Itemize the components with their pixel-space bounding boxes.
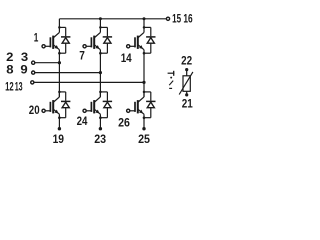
svg-text:9: 9 xyxy=(20,63,28,77)
transistor Q3 gate lead and terminal xyxy=(127,45,130,48)
terminal pins 15 16 xyxy=(166,17,169,20)
node phase V junction xyxy=(99,71,102,74)
wire leg vertical xyxy=(143,50,145,97)
thermistor temperature label -t deg (rotated glyph strokes) xyxy=(168,71,175,76)
transistor Q6 gate lead and terminal xyxy=(127,109,130,112)
wire leg vertical xyxy=(99,50,101,97)
wire thermistor bottom lead xyxy=(186,91,188,95)
transistor Q6 gate bar xyxy=(134,102,136,112)
transistor Q4 body bar xyxy=(52,100,54,113)
node bus junction leg2 xyxy=(99,17,102,20)
svg-text:20: 20 xyxy=(29,103,40,117)
junction dot diode-D1 anode to emitter xyxy=(58,52,61,55)
transistor Q3 gate bar xyxy=(134,37,136,47)
svg-text:26: 26 xyxy=(118,115,130,129)
node bus junction leg3 xyxy=(143,17,146,20)
junction dot diode branch xyxy=(143,91,146,94)
junction dot diode branch xyxy=(143,26,146,29)
svg-text:14: 14 xyxy=(121,51,132,65)
transistor Q1 body bar xyxy=(52,36,54,49)
transistor Q5 gate bar xyxy=(90,102,92,112)
svg-text:1: 1 xyxy=(34,30,39,44)
transistor Q4 gate lead and terminal xyxy=(42,109,45,112)
svg-text:25: 25 xyxy=(138,132,150,146)
transistor Q6 collector wire xyxy=(143,92,145,97)
junction dot diode-D2 anode to emitter xyxy=(99,52,102,55)
transistor Q3 emitter angle with arrow xyxy=(138,45,144,50)
transistor Q2 gate lead and terminal xyxy=(83,45,86,48)
terminal dot xyxy=(58,127,61,130)
terminal pin circle phase U xyxy=(32,61,35,64)
thermistor RT diagonal stroke xyxy=(179,72,193,95)
transistor Q5 body bar xyxy=(93,100,95,113)
wire diode branch of Q2 xyxy=(100,26,107,28)
transistor Q6 emitter angle with arrow xyxy=(138,109,144,114)
wire DC+ bus xyxy=(59,18,166,20)
transistor Q1 gate bar xyxy=(49,37,51,47)
transistor Q3 body bar xyxy=(137,36,139,49)
junction dot diode branch xyxy=(99,26,102,29)
transistor Q5 emitter wire to terminal xyxy=(99,114,101,129)
wire phase V xyxy=(35,72,101,74)
transistor Q4 emitter angle with arrow xyxy=(54,109,60,114)
diode D4 xyxy=(61,100,70,102)
terminal dot xyxy=(99,127,102,130)
transistor Q2 body bar xyxy=(93,36,95,49)
junction dot diode branch xyxy=(99,91,102,94)
transistor Q1 collector riser wire xyxy=(58,19,60,33)
transistor Q4 collector wire xyxy=(58,92,60,97)
wire diode branch of Q1 xyxy=(59,26,65,28)
transistor Q4 gate bar xyxy=(49,102,51,112)
transistor Q5 collector angle xyxy=(95,97,101,102)
thermistor RT pin 22 terminal dot xyxy=(185,68,188,71)
transistor Q2 gate bar xyxy=(90,37,92,47)
transistor Q4 emitter wire to terminal xyxy=(58,114,60,129)
thermistor RT pin 21 terminal dot xyxy=(185,93,188,96)
transistor Q6 collector angle xyxy=(138,97,144,102)
diode D2 xyxy=(103,36,112,38)
node phase W junction xyxy=(142,81,145,84)
wire phase U xyxy=(35,62,60,64)
transistor Q2 emitter angle with arrow xyxy=(95,45,101,50)
svg-text:23: 23 xyxy=(94,132,106,146)
transistor Q5 collector wire xyxy=(99,92,101,97)
svg-text:22: 22 xyxy=(181,53,192,67)
svg-text:19: 19 xyxy=(53,132,65,146)
svg-text:16: 16 xyxy=(183,12,193,26)
svg-text:24: 24 xyxy=(77,114,88,128)
junction dot diode-D4 anode to emitter xyxy=(58,116,61,119)
transistor Q5 gate lead and terminal xyxy=(83,109,86,112)
transistor Q1 collector angle xyxy=(54,32,60,37)
transistor Q2 collector angle xyxy=(95,32,101,37)
wire diode branch of Q5 xyxy=(100,91,107,93)
transistor Q1 emitter angle with arrow xyxy=(54,45,60,50)
thermistor RT body xyxy=(183,76,190,92)
wire diode branch of Q4 xyxy=(59,91,65,93)
junction dot diode-D5 anode to emitter xyxy=(99,116,102,119)
junction dot diode branch xyxy=(58,26,61,29)
diode D1 xyxy=(61,36,70,38)
transistor Q3 collector riser wire xyxy=(143,19,145,33)
transistor Q1 gate lead and terminal xyxy=(42,45,45,48)
svg-text:13: 13 xyxy=(15,80,23,94)
wire diode branch of Q6 xyxy=(144,91,151,93)
transistor Q2 collector riser wire xyxy=(99,19,101,33)
diode D5 xyxy=(103,100,112,102)
svg-text:7: 7 xyxy=(79,49,85,63)
diode D3 xyxy=(146,36,155,38)
svg-text:21: 21 xyxy=(182,96,193,110)
transistor Q6 body bar xyxy=(137,100,139,113)
terminal pin circle phase V xyxy=(32,71,35,74)
terminal pin circle phase W xyxy=(31,81,34,84)
junction dot diode-D6 anode to emitter xyxy=(143,116,146,119)
svg-text:12: 12 xyxy=(5,80,14,94)
transistor Q5 emitter angle with arrow xyxy=(95,109,101,114)
junction dot diode branch xyxy=(58,91,61,94)
wire diode branch of Q3 xyxy=(144,26,151,28)
wire phase W xyxy=(34,81,144,83)
transistor Q6 emitter wire to terminal xyxy=(143,114,145,129)
terminal dot xyxy=(142,127,145,130)
junction dot diode-D3 anode to emitter xyxy=(143,52,146,55)
svg-text:15: 15 xyxy=(172,12,181,26)
transistor Q4 collector angle xyxy=(54,97,60,102)
transistor Q3 collector angle xyxy=(138,32,144,37)
wire thermistor top lead xyxy=(186,70,188,76)
svg-text:8: 8 xyxy=(6,63,14,77)
node phase U junction xyxy=(58,61,61,64)
diode D6 xyxy=(146,100,155,102)
wire leg vertical xyxy=(58,50,60,97)
